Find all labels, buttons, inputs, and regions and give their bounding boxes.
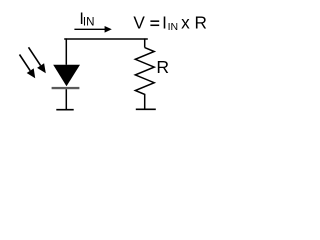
svg-text:x R: x R [181,12,207,32]
svg-text:IN: IN [83,16,95,29]
svg-text:R: R [156,57,169,77]
svg-text:V: V [133,12,145,32]
svg-text:IN: IN [168,21,179,33]
svg-text:I: I [162,12,167,32]
